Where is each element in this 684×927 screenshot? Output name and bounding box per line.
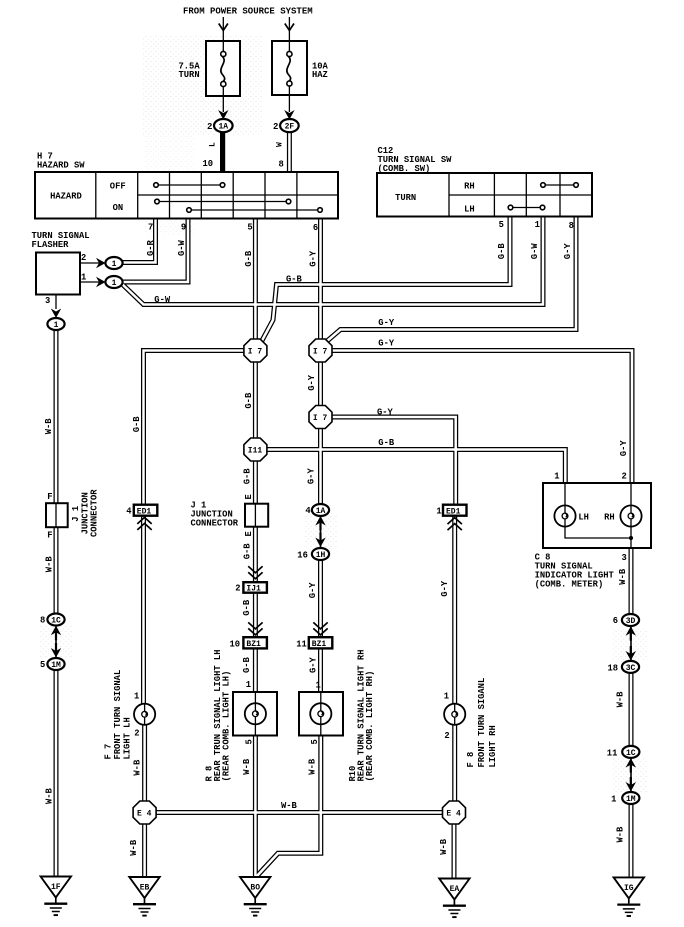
svg-text:G-Y: G-Y [307, 468, 317, 485]
svg-text:1: 1 [246, 680, 251, 690]
svg-text:G-Y: G-Y [377, 408, 394, 418]
svg-text:1C: 1C [626, 749, 636, 758]
svg-text:2: 2 [134, 729, 139, 739]
svg-text:E 4: E 4 [446, 810, 461, 819]
svg-text:W-B: W-B [616, 691, 626, 708]
svg-text:3: 3 [622, 553, 627, 563]
svg-text:IJ1: IJ1 [246, 585, 261, 594]
svg-text:G-B: G-B [242, 656, 252, 673]
svg-text:2: 2 [622, 472, 627, 482]
svg-text:LH: LH [464, 205, 475, 215]
svg-text:E: E [244, 531, 254, 536]
svg-text:G-Y: G-Y [378, 338, 395, 348]
svg-text:FRONT TURN SIGNAL: FRONT TURN SIGNAL [113, 670, 123, 760]
svg-text:E 4: E 4 [137, 810, 152, 819]
svg-text:1: 1 [134, 692, 139, 702]
svg-text:G-Y: G-Y [308, 656, 318, 673]
svg-text:TURN: TURN [395, 193, 416, 203]
svg-text:G-W: G-W [530, 243, 540, 260]
svg-text:(REAR COMB. LIGHT RH): (REAR COMB. LIGHT RH) [365, 671, 375, 782]
svg-text:W: W [276, 142, 285, 147]
svg-text:HAZ: HAZ [312, 70, 328, 80]
svg-text:5: 5 [499, 220, 504, 230]
svg-text:18: 18 [608, 664, 619, 674]
svg-text:W-B: W-B [439, 838, 449, 855]
svg-text:ED1: ED1 [137, 507, 152, 516]
svg-text:11: 11 [296, 639, 307, 649]
svg-text:ON: ON [113, 203, 124, 213]
svg-text:CONNECTOR: CONNECTOR [90, 489, 100, 537]
svg-text:F 7: F 7 [104, 744, 114, 760]
svg-text:1M: 1M [51, 661, 61, 670]
svg-text:LIGHT LH: LIGHT LH [123, 717, 133, 759]
svg-text:(REAR COMB. LIGHT LH): (REAR COMB. LIGHT LH) [222, 671, 232, 782]
svg-text:G-Y: G-Y [308, 582, 318, 599]
svg-text:1: 1 [535, 220, 540, 230]
svg-text:8: 8 [40, 616, 45, 626]
svg-text:2: 2 [444, 731, 449, 741]
svg-text:F: F [47, 492, 52, 502]
svg-text:5: 5 [310, 739, 320, 744]
svg-text:W-B: W-B [44, 418, 54, 435]
svg-text:HAZARD SW: HAZARD SW [37, 161, 85, 171]
svg-text:G-Y: G-Y [563, 243, 573, 260]
svg-text:BZ1: BZ1 [246, 640, 261, 649]
svg-text:1: 1 [112, 260, 117, 269]
svg-text:BZ1: BZ1 [312, 640, 327, 649]
svg-text:L: L [209, 142, 218, 147]
svg-text:3D: 3D [626, 617, 636, 626]
svg-text:W-B: W-B [618, 568, 628, 585]
svg-text:I 7: I 7 [313, 414, 328, 423]
svg-text:8: 8 [279, 160, 284, 170]
svg-text:W-B: W-B [44, 556, 54, 573]
svg-text:1: 1 [54, 321, 59, 330]
svg-text:10: 10 [203, 159, 214, 169]
svg-text:5: 5 [40, 660, 45, 670]
svg-text:RH: RH [604, 513, 615, 523]
svg-text:E: E [244, 494, 254, 499]
svg-text:1: 1 [81, 273, 86, 283]
svg-text:EA: EA [450, 885, 460, 894]
svg-text:W-B: W-B [242, 758, 252, 775]
svg-text:G-B: G-B [497, 243, 507, 260]
svg-text:G-B: G-B [242, 599, 252, 616]
svg-text:FROM POWER SOURCE SYSTEM: FROM POWER SOURCE SYSTEM [183, 7, 313, 17]
svg-text:G-B: G-B [244, 250, 254, 267]
svg-text:G-Y: G-Y [440, 580, 450, 597]
svg-text:G-Y: G-Y [378, 318, 395, 328]
svg-text:1: 1 [444, 692, 449, 702]
svg-text:G-B: G-B [286, 275, 303, 285]
svg-text:6: 6 [613, 616, 618, 626]
svg-text:RH: RH [464, 181, 475, 191]
svg-text:CONNECTOR: CONNECTOR [191, 519, 239, 529]
svg-text:ED1: ED1 [446, 507, 461, 516]
svg-text:G-Y: G-Y [307, 374, 317, 391]
svg-text:3C: 3C [626, 664, 636, 673]
svg-text:I 7: I 7 [248, 348, 263, 357]
svg-text:3: 3 [45, 296, 50, 306]
svg-text:W-B: W-B [308, 758, 318, 775]
svg-text:1C: 1C [51, 617, 61, 626]
svg-text:TURN: TURN [179, 70, 200, 80]
svg-text:5: 5 [245, 739, 255, 744]
svg-text:2F: 2F [285, 123, 295, 132]
svg-text:EB: EB [140, 884, 150, 893]
svg-text:1M: 1M [626, 795, 636, 804]
svg-text:F: F [47, 531, 52, 541]
svg-text:G-B: G-B [244, 392, 254, 409]
svg-text:I11: I11 [248, 447, 263, 456]
svg-text:G-W: G-W [154, 295, 171, 305]
svg-text:2: 2 [235, 584, 240, 594]
svg-text:BO: BO [250, 884, 260, 893]
svg-text:J 1: J 1 [71, 506, 81, 522]
svg-text:G-Y: G-Y [619, 440, 629, 457]
svg-text:7: 7 [148, 223, 153, 233]
svg-text:2: 2 [207, 122, 212, 132]
svg-text:G-Y: G-Y [308, 250, 318, 267]
svg-text:G-B: G-B [378, 438, 395, 448]
svg-text:W-B: W-B [129, 839, 139, 856]
svg-text:1: 1 [316, 681, 321, 691]
svg-text:2: 2 [273, 122, 278, 132]
svg-text:W-B: W-B [616, 826, 626, 843]
svg-text:1: 1 [611, 795, 616, 805]
svg-text:10: 10 [230, 639, 241, 649]
svg-text:4: 4 [305, 506, 311, 516]
svg-text:G-R: G-R [146, 239, 156, 256]
svg-text:FLASHER: FLASHER [32, 240, 70, 250]
svg-text:1: 1 [112, 279, 117, 288]
svg-text:W-B: W-B [44, 787, 54, 804]
svg-text:9: 9 [181, 223, 186, 233]
svg-text:F 8: F 8 [466, 752, 476, 768]
svg-text:11: 11 [607, 749, 618, 759]
svg-text:5: 5 [247, 223, 252, 233]
svg-text:FRONT TURN SIGANL: FRONT TURN SIGANL [477, 678, 487, 768]
svg-text:W-B: W-B [133, 759, 143, 776]
svg-text:1A: 1A [219, 123, 229, 132]
svg-text:1H: 1H [316, 551, 326, 560]
svg-text:4: 4 [126, 507, 132, 517]
svg-text:1A: 1A [316, 507, 326, 516]
svg-text:1F: 1F [51, 883, 61, 892]
svg-text:I 7: I 7 [313, 348, 328, 357]
svg-text:8: 8 [569, 221, 574, 231]
svg-text:G-B: G-B [242, 543, 252, 560]
svg-text:(COMB. METER): (COMB. METER) [535, 580, 604, 590]
svg-text:LIGHT RH: LIGHT RH [488, 725, 498, 767]
svg-text:IG: IG [624, 884, 634, 893]
svg-text:G-B: G-B [132, 416, 142, 433]
svg-text:6: 6 [313, 223, 318, 233]
svg-text:W-B: W-B [281, 801, 298, 811]
svg-text:G-B: G-B [242, 468, 252, 485]
svg-text:1: 1 [554, 472, 559, 482]
svg-text:2: 2 [81, 253, 86, 263]
svg-text:OFF: OFF [110, 182, 126, 192]
svg-text:LH: LH [578, 513, 589, 523]
svg-text:G-W: G-W [177, 239, 187, 256]
svg-text:16: 16 [297, 551, 308, 561]
svg-text:1: 1 [436, 507, 441, 517]
svg-text:HAZARD: HAZARD [50, 191, 82, 201]
